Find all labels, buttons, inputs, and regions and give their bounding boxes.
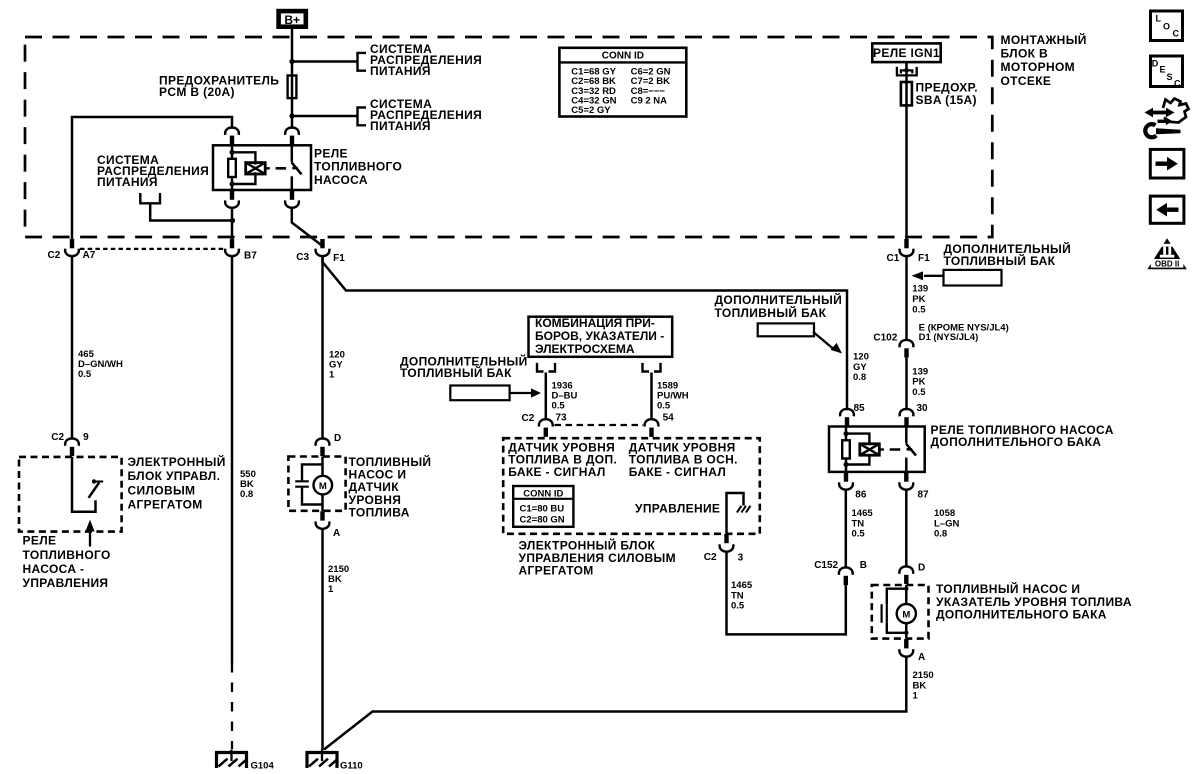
label PCM left (128, 454, 226, 512)
label power distribution 1 (370, 42, 482, 78)
conn id table fuse block (559, 48, 686, 117)
wire branch 2 to power distribution (292, 115, 358, 118)
svg-text:НАСОСА -: НАСОСА - (23, 562, 85, 576)
label wire 1936 (552, 381, 578, 412)
svg-text:B+: B+ (284, 13, 300, 27)
svg-text:1: 1 (329, 370, 335, 381)
svg-text:C152: C152 (814, 560, 838, 571)
svg-text:C2: C2 (48, 250, 61, 261)
connector C2 pin 9 (51, 432, 89, 456)
wire relay 30 to connector F1 (292, 208, 323, 246)
arrow pointer to driver (85, 520, 94, 547)
reference box auxiliary tank mid-left (450, 386, 509, 401)
wire 2150 BK right (372, 656, 906, 711)
icon OBD II (1147, 238, 1186, 269)
svg-text:SBA (15A): SBA (15A) (916, 93, 977, 107)
connector pin D aux pump (899, 562, 925, 584)
fuel pump module dashed box (288, 457, 345, 511)
wire 2150 BK left (321, 529, 324, 750)
label relay auxiliary fuel pump (931, 423, 1114, 449)
svg-text:0.5: 0.5 (912, 304, 926, 315)
relay fuel pump K1 (213, 127, 311, 207)
svg-text:0.8: 0.8 (240, 489, 253, 500)
svg-text:CONN ID: CONN ID (523, 488, 563, 499)
svg-text:ОТСЕКЕ: ОТСЕКЕ (1001, 74, 1052, 88)
svg-text:D1 (NYS/JL4): D1 (NYS/JL4) (919, 332, 979, 343)
label wire 139 upper (912, 284, 928, 316)
label fuel pump relay control (23, 534, 111, 591)
instrument cluster box (529, 316, 673, 357)
wire relay IGN1 to fuse SBA (905, 62, 908, 239)
svg-text:A: A (333, 528, 340, 539)
connector pin A fuel pump (316, 511, 341, 539)
underhood fuse block dashed box (25, 37, 992, 237)
svg-text:БЛОК УПРАВЛ.: БЛОК УПРАВЛ. (128, 469, 221, 483)
wire 1936 D-BU (545, 373, 548, 421)
wire branch 1 to power distribution (292, 60, 358, 63)
label wire 1058 (934, 508, 959, 540)
relay IGN1 box (872, 43, 940, 62)
wire inside PCM to switch (72, 457, 96, 512)
svg-text:139: 139 (912, 284, 928, 295)
label wire 1465 control (731, 580, 753, 612)
wire 139 PK lower (905, 358, 908, 411)
PCM dashed box center (503, 438, 760, 534)
connector link dashed 73-54 (555, 424, 644, 426)
svg-text:1465: 1465 (731, 580, 753, 591)
svg-text:G110: G110 (340, 761, 363, 772)
svg-text:73: 73 (556, 412, 568, 423)
label auxiliary fuel tank right (944, 241, 1072, 268)
label wire 550 (240, 469, 256, 500)
bracket power distribution left (140, 193, 160, 203)
svg-text:0.8: 0.8 (934, 529, 947, 540)
svg-text:CONN ID: CONN ID (602, 51, 644, 62)
label relay fuel pump (314, 147, 402, 188)
label underhood fuse block (1001, 32, 1087, 88)
wire 465 D-GN/WH (71, 256, 74, 440)
svg-text:B7: B7 (244, 251, 257, 262)
connector link dashed A7-B7 (80, 248, 225, 250)
icon arrow left (1150, 196, 1184, 223)
svg-text:C1=80 BU: C1=80 BU (520, 503, 565, 514)
svg-text:ДОПОЛНИТЕЛЬНОГО БАКА: ДОПОЛНИТЕЛЬНОГО БАКА (931, 435, 1102, 449)
svg-text:М: М (319, 481, 327, 492)
internal ground control (727, 493, 751, 533)
label splice options (919, 323, 1009, 343)
motor M aux fuel pump (897, 585, 916, 639)
wire 1589 PU/WH (650, 373, 653, 421)
svg-text:МОНТАЖНЫЙ: МОНТАЖНЫЙ (1001, 32, 1087, 47)
connector pin B7 (225, 239, 257, 262)
label wire 139 lower (912, 366, 928, 398)
svg-text:B: B (860, 560, 867, 571)
arrow auxiliary tank to wire 120 (813, 332, 842, 354)
aux fuel pump module dashed box (872, 585, 929, 639)
junction node on B+ wire (289, 59, 294, 64)
svg-text:ТОПЛИВНОГО: ТОПЛИВНОГО (23, 548, 111, 562)
svg-text:МОТОРНОМ: МОТОРНОМ (1001, 60, 1076, 74)
svg-text:30: 30 (917, 403, 929, 414)
svg-text:D: D (334, 433, 341, 444)
svg-text:ДОПОЛНИТЕЛЬНОГО БАКА: ДОПОЛНИТЕЛЬНОГО БАКА (936, 607, 1107, 621)
svg-text:БАКЕ - СИГНАЛ: БАКЕ - СИГНАЛ (629, 465, 726, 479)
svg-text:АГРЕГАТОМ: АГРЕГАТОМ (128, 498, 203, 512)
exit bracket cluster left (537, 363, 555, 372)
svg-text:РЕЛЕ: РЕЛЕ (314, 147, 348, 161)
connector C2 pin 73 (522, 412, 568, 437)
connector C3 pin F1 (296, 239, 345, 264)
svg-text:G104: G104 (251, 761, 275, 772)
svg-text:1: 1 (913, 691, 919, 702)
icon diagnostic wrench (1145, 99, 1189, 138)
svg-text:БЛОК В: БЛОК В (1001, 47, 1049, 61)
svg-text:F1: F1 (918, 253, 930, 264)
wire 550 BK dashed (231, 663, 233, 749)
label auxiliary fuel tank top-mid (715, 292, 843, 320)
svg-text:СИЛОВЫМ: СИЛОВЫМ (128, 483, 196, 497)
svg-text:ТОПЛИВНЫЙ БАК: ТОПЛИВНЫЙ БАК (944, 253, 1056, 268)
label wire 2150 left (328, 564, 349, 595)
label aux fuel pump module (936, 581, 1132, 621)
relay auxiliary fuel pump K2 (829, 409, 925, 490)
fuel level sender (295, 464, 322, 504)
svg-text:ПИТАНИЯ: ПИТАНИЯ (97, 175, 158, 189)
connector C2 pin 3 (704, 534, 744, 564)
svg-text:87: 87 (918, 490, 930, 501)
svg-text:D: D (918, 562, 925, 573)
arrow auxiliary tank to wire 1936 (510, 388, 541, 397)
label PCM center (519, 537, 677, 577)
PCM relay driver dashed box (19, 457, 122, 532)
svg-text:C1: C1 (887, 253, 900, 264)
svg-text:БОРОВ, УКАЗАТЕЛИ -: БОРОВ, УКАЗАТЕЛИ - (535, 329, 664, 343)
svg-text:C2=80 GN: C2=80 GN (520, 515, 565, 526)
svg-text:БАКЕ - СИГНАЛ: БАКЕ - СИГНАЛ (508, 465, 605, 479)
svg-text:НАСОСА: НАСОСА (314, 173, 368, 187)
svg-text:F1: F1 (333, 253, 345, 264)
label wire 465 (78, 349, 123, 380)
svg-text:C2: C2 (522, 413, 535, 424)
svg-text:L: L (1156, 14, 1162, 24)
svg-text:ПИТАНИЯ: ПИТАНИЯ (370, 119, 431, 133)
svg-text:0.5: 0.5 (912, 387, 926, 398)
svg-text:C2: C2 (704, 552, 717, 563)
label power distribution left (97, 153, 209, 189)
svg-text:ТОПЛИВНОГО: ТОПЛИВНОГО (314, 160, 402, 174)
svg-text:УПРАВЛЕНИЯ: УПРАВЛЕНИЯ (23, 576, 109, 590)
wire relay 86 feed (72, 117, 232, 239)
svg-text:0.8: 0.8 (853, 372, 866, 383)
wire 139 PK upper (905, 256, 908, 340)
arrow auxiliary tank to wire 139 (912, 271, 944, 280)
connector C1 pin F1 right (887, 239, 931, 264)
exit bracket cluster right (643, 363, 661, 372)
connector C2 pin A7 (48, 239, 96, 261)
label wire 120 GY 1 (329, 350, 345, 381)
fuse holder clip SBA (897, 67, 917, 76)
wire 1465 TN relay 86 (845, 490, 848, 569)
svg-text:A: A (918, 652, 925, 663)
label fuse SBA (916, 80, 978, 107)
junction node branch 2 (289, 113, 294, 118)
svg-text:C: C (1174, 79, 1181, 89)
wire F1 to auxiliary tank relay feed (323, 256, 848, 410)
label wire 1465 relay (852, 508, 874, 540)
connector pin 54 (645, 412, 675, 437)
wire diagonal into G110 (324, 712, 373, 750)
svg-text:9: 9 (83, 432, 89, 443)
svg-text:УПРАВЛЕНИЕ: УПРАВЛЕНИЕ (635, 502, 720, 516)
label fuel level sensor aux signal (508, 440, 617, 479)
svg-text:ПИТАНИЯ: ПИТАНИЯ (370, 64, 431, 78)
svg-text:РЕЛЕ IGN1: РЕЛЕ IGN1 (873, 46, 940, 60)
wire 1058 L-GN (905, 490, 908, 568)
ground G104 (215, 750, 274, 772)
svg-text:0.5: 0.5 (731, 601, 745, 612)
battery feed B+ terminal (279, 11, 306, 27)
svg-text:54: 54 (663, 412, 675, 423)
svg-text:1: 1 (328, 584, 334, 595)
label fuse PCM B (159, 74, 279, 100)
inline connector C102 (873, 333, 913, 358)
svg-text:КОМБИНАЦИЯ ПРИ-: КОМБИНАЦИЯ ПРИ- (535, 316, 655, 330)
svg-text:86: 86 (855, 490, 867, 501)
reference box auxiliary tank top-mid (758, 323, 814, 336)
label fuel level sensor main signal (629, 440, 738, 479)
inline connector C152 pin B (814, 560, 867, 585)
fuse PCM B 20A (288, 76, 297, 99)
svg-text:C3: C3 (296, 252, 309, 263)
svg-text:0.5: 0.5 (552, 401, 566, 412)
icon arrow right (1150, 149, 1184, 178)
wire 550 BK solid (231, 256, 234, 663)
svg-text:E: E (1160, 65, 1166, 75)
svg-text:C5=2 GY: C5=2 GY (571, 105, 611, 116)
svg-text:0.5: 0.5 (78, 369, 92, 380)
fuse SBA 15A (901, 82, 912, 105)
svg-text:ТОПЛИВНЫЙ БАК: ТОПЛИВНЫЙ БАК (715, 305, 827, 320)
svg-text:РЕЛЕ: РЕЛЕ (23, 534, 57, 548)
svg-text:C9 2 NA: C9 2 NA (631, 96, 668, 107)
svg-text:D: D (1152, 59, 1159, 69)
svg-text:PCM B (20A): PCM B (20A) (159, 85, 235, 99)
wire B+ down to fuse (291, 29, 294, 129)
svg-text:C2: C2 (51, 432, 64, 443)
svg-text:ТОПЛИВНЫЙ БАК: ТОПЛИВНЫЙ БАК (400, 365, 512, 380)
bracket power distribution 1 (358, 53, 367, 71)
svg-text:O: O (1163, 22, 1170, 32)
svg-text:OBD II: OBD II (1155, 259, 1179, 268)
switch relay driver (89, 479, 104, 498)
label fuel pump module (349, 454, 432, 519)
reference box auxiliary tank right (944, 270, 1002, 286)
svg-text:C: C (1173, 29, 1180, 39)
svg-text:3: 3 (738, 553, 744, 564)
svg-text:S: S (1167, 72, 1173, 82)
junction nodes aux pump (904, 587, 908, 591)
svg-text:0.5: 0.5 (657, 401, 671, 412)
svg-text:85: 85 (854, 403, 866, 414)
icon LOC (1151, 11, 1183, 41)
ground G110 (306, 750, 363, 772)
label power distribution 2 (370, 97, 482, 133)
svg-text:ТОПЛИВА: ТОПЛИВА (349, 505, 410, 519)
connector pin A aux pump (899, 639, 925, 663)
conn id table PCM (513, 486, 573, 527)
svg-text:ЭЛЕКТРОСХЕМА: ЭЛЕКТРОСХЕМА (535, 342, 635, 356)
motor M fuel pump (314, 457, 333, 512)
svg-text:М: М (902, 609, 910, 620)
wire 120 GY 1 (321, 256, 324, 440)
svg-text:АГРЕГАТОМ: АГРЕГАТОМ (519, 563, 594, 577)
bracket power distribution 2 (358, 108, 367, 126)
aux fuel level sender (882, 589, 907, 633)
icon DESC (1151, 56, 1183, 89)
svg-text:ДОПОЛНИТЕЛЬНЫЙ: ДОПОЛНИТЕЛЬНЫЙ (715, 292, 843, 307)
svg-text:0.5: 0.5 (852, 529, 866, 540)
connector pin D fuel pump (316, 433, 342, 456)
svg-text:ЭЛЕКТРОННЫЙ: ЭЛЕКТРОННЫЙ (128, 454, 226, 469)
label wire 120 GY 0.8 (853, 352, 869, 384)
wire power distribution to relay 85 output (150, 203, 232, 220)
junction node relay 85 output (230, 218, 235, 223)
svg-text:A7: A7 (83, 250, 96, 261)
svg-text:C102: C102 (873, 333, 897, 344)
label wire 2150 right (913, 670, 934, 702)
wire 1465 TN control (727, 552, 846, 635)
label auxiliary fuel tank mid-left (400, 354, 528, 380)
label wire 1589 (657, 381, 689, 412)
wire relay 85 to connector B7 (231, 208, 234, 239)
